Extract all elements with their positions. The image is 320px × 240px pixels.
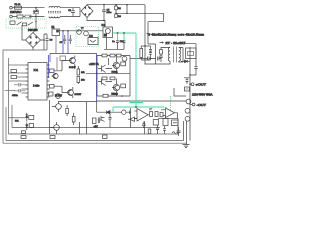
wire aux down bbox=[34, 17, 37, 33]
svg-text:1-wire: 1-wire bbox=[33, 85, 40, 88]
transistor T12 bbox=[98, 78, 106, 86]
transistor T11 bbox=[98, 65, 106, 73]
connector mark bbox=[185, 87, 190, 91]
snubber caps bbox=[149, 49, 152, 54]
input arrow bbox=[130, 117, 135, 122]
terminal L bbox=[10, 6, 13, 9]
wire bbox=[50, 100, 87, 134]
transformer Tr1 secondary bbox=[179, 48, 181, 62]
output rail bbox=[189, 47, 191, 141]
wire bbox=[174, 88, 186, 96]
resistor column bbox=[153, 120, 158, 126]
svg-text:BC547: BC547 bbox=[69, 67, 76, 69]
resistor R3 bbox=[115, 14, 118, 17]
bridge rectifier B1 bbox=[81, 5, 93, 18]
junction bbox=[35, 16, 37, 18]
cap bbox=[109, 115, 112, 128]
junction bbox=[67, 30, 69, 32]
switch S1 bbox=[17, 15, 23, 18]
diode cluster bottom left bbox=[9, 117, 26, 119]
cap at output bbox=[184, 78, 190, 84]
resistor R11 bbox=[11, 76, 17, 79]
resistor R1 bbox=[115, 5, 117, 6]
green stub to op-amp bbox=[165, 107, 167, 110]
trimmer bbox=[163, 119, 168, 126]
snubber resistor bbox=[140, 49, 143, 58]
IC U2 switcher bbox=[103, 27, 113, 38]
junction bbox=[115, 13, 117, 15]
resistor R41 bbox=[29, 124, 33, 128]
junction bbox=[126, 13, 128, 15]
bottom strip component bbox=[21, 136, 26, 139]
cap bbox=[177, 127, 181, 136]
green junction bbox=[135, 106, 137, 108]
bridge B1 diodes bbox=[84, 7, 90, 15]
wire drain rail bbox=[144, 5, 146, 64]
transistor T1 bbox=[70, 58, 76, 64]
svg-text:Tr 42x42x19.5mm; core 42x10.5m: Tr 42x42x19.5mm; core 42x10.5mm bbox=[147, 33, 205, 37]
svg-text:BC547: BC547 bbox=[75, 94, 82, 96]
terminal +OUT bbox=[191, 83, 194, 86]
op-amp U3a bbox=[137, 109, 148, 122]
svg-text:+OUT: +OUT bbox=[196, 83, 207, 87]
wire top dc rail bbox=[87, 4, 145, 6]
relay coil bbox=[23, 23, 27, 26]
green stub caps bbox=[118, 34, 125, 41]
wire bbox=[12, 105, 160, 128]
sense dashed wire bbox=[170, 96, 172, 116]
bottom mark bbox=[22, 131, 26, 134]
blue wire at IC bbox=[48, 55, 50, 78]
junction bbox=[77, 30, 79, 32]
resistor R17 bbox=[77, 77, 80, 83]
capacitor C9 bbox=[116, 41, 119, 50]
junction bbox=[189, 74, 191, 76]
wire bbox=[55, 36, 57, 54]
wire pin stubs bbox=[9, 65, 26, 93]
bottom middle cluster bbox=[93, 118, 97, 124]
svg-text:IC2: IC2 bbox=[89, 35, 93, 38]
optocoupler green box bbox=[76, 27, 99, 47]
wire bbox=[60, 8, 80, 17]
junction bbox=[126, 4, 128, 6]
cap column 1 bbox=[142, 122, 146, 129]
svg-text:4MHz: 4MHz bbox=[12, 95, 18, 97]
resistor R21 bbox=[110, 54, 115, 57]
varistor RV1 bbox=[33, 8, 38, 17]
junction bbox=[62, 30, 64, 32]
shunt box bbox=[172, 120, 179, 126]
meter M3 bbox=[185, 116, 190, 121]
svg-text:BC557: BC557 bbox=[55, 96, 63, 98]
output cap bbox=[190, 62, 198, 75]
capacitor C1 bbox=[71, 8, 75, 17]
fuse F1 bbox=[15, 6, 22, 9]
bottom bus wires bbox=[3, 107, 187, 143]
resistor R26 bbox=[102, 77, 107, 80]
wire mid bbox=[86, 73, 130, 75]
transistor T7 bbox=[77, 30, 82, 35]
terminal N bbox=[10, 15, 13, 18]
resistor R13 base bbox=[50, 85, 55, 89]
symbol squiggle bbox=[172, 132, 178, 135]
wire bbox=[56, 57, 58, 70]
wire y49 bbox=[104, 48, 124, 50]
junction bbox=[29, 16, 30, 17]
arrow bbox=[160, 42, 164, 43]
wire bbox=[12, 16, 44, 18]
capacitor C5 bulk bbox=[102, 5, 106, 21]
transistor T20 bbox=[56, 104, 62, 110]
resistor R24 bbox=[121, 62, 126, 66]
wire bridge minus bbox=[87, 18, 105, 28]
wire bbox=[145, 44, 197, 64]
bridge B2 diodes bbox=[29, 36, 37, 44]
junction bbox=[115, 4, 117, 6]
IC1 microcontroller bbox=[28, 63, 47, 101]
transformer core bbox=[174, 47, 177, 63]
transformer Tr1 primary bbox=[168, 48, 170, 62]
wire bbox=[32, 48, 34, 51]
coupling caps bbox=[144, 57, 161, 61]
wire left bus bbox=[8, 58, 10, 134]
wire bbox=[54, 86, 73, 98]
rectifier box bbox=[186, 48, 197, 59]
choke L1 bottom winding bbox=[49, 17, 60, 18]
resistor R16 bbox=[77, 69, 80, 75]
transistor T21 bbox=[54, 125, 60, 131]
terminal bbox=[122, 110, 126, 114]
relay contact bbox=[10, 21, 15, 24]
resistor R26 bbox=[72, 117, 75, 123]
junction bbox=[35, 7, 37, 9]
svg-text:+5V: +5V bbox=[94, 127, 99, 129]
label marks bbox=[149, 108, 152, 110]
capacitor C7 bbox=[63, 35, 66, 44]
resistor R22 bbox=[117, 54, 122, 57]
switch contact bbox=[17, 22, 22, 25]
resistor R14 bbox=[49, 92, 53, 96]
wire stub bbox=[5, 90, 16, 92]
capacitor C8 bbox=[69, 35, 72, 44]
svg-text:+24V 3A: +24V 3A bbox=[89, 63, 99, 66]
resistor on rail bbox=[103, 94, 108, 97]
junction bbox=[103, 4, 105, 6]
svg-text:230VAC: 230VAC bbox=[10, 10, 22, 14]
resistor R10 bbox=[11, 70, 17, 73]
wire bbox=[97, 101, 131, 128]
resistor R31 bbox=[155, 112, 158, 117]
svg-text:100u: 100u bbox=[107, 12, 113, 14]
resistor R25 bbox=[66, 109, 69, 114]
resistor small bbox=[160, 112, 163, 117]
wire y101 bbox=[97, 100, 187, 102]
crystal caps bbox=[14, 83, 26, 93]
terminal -OUT bbox=[192, 103, 195, 106]
svg-text:BD241: BD241 bbox=[112, 72, 119, 74]
wire mid rail bbox=[116, 13, 164, 44]
wire bbox=[130, 58, 144, 60]
choke L1 core bbox=[48, 11, 62, 13]
blue wire riser B bbox=[67, 31, 69, 54]
op-amp U3b bbox=[165, 108, 174, 118]
switch contact 2 bbox=[28, 22, 33, 25]
bridge rectifier B2 bbox=[26, 33, 41, 48]
thermistor R2 bbox=[25, 15, 31, 18]
bottom strip component bbox=[50, 136, 55, 139]
enclosure wire bbox=[3, 50, 47, 143]
resistor R20 bbox=[102, 54, 107, 57]
resistor R25 bbox=[121, 84, 126, 88]
transistor T10 bbox=[122, 56, 127, 61]
svg-text:F1 4A: F1 4A bbox=[15, 3, 21, 6]
capacitor C6 bbox=[45, 39, 48, 41]
wire push-pull rails bbox=[97, 56, 130, 97]
svg-text:B40C800: B40C800 bbox=[28, 30, 38, 32]
wire bbox=[22, 25, 26, 40]
transistor T5 bbox=[56, 94, 61, 99]
blue wire riser A bbox=[62, 31, 64, 54]
junction bbox=[35, 21, 36, 22]
junction bbox=[107, 95, 109, 97]
resistor R27 bbox=[110, 77, 115, 80]
ground bbox=[183, 143, 190, 147]
svg-text:BD242: BD242 bbox=[112, 94, 119, 96]
component box S2 bbox=[52, 29, 60, 36]
blue wire top bbox=[50, 54, 97, 102]
svg-text:-OUT: -OUT bbox=[197, 103, 207, 107]
wire bbox=[41, 34, 48, 50]
green wire main bbox=[113, 33, 165, 112]
wire bbox=[54, 56, 75, 71]
wire bbox=[184, 121, 187, 143]
junction dots on green bbox=[117, 32, 119, 34]
zener D13 bbox=[26, 125, 29, 128]
svg-text:12V-50V 50A: 12V-50V 50A bbox=[192, 92, 213, 96]
capacitor C10 bbox=[123, 41, 126, 50]
IC1 pins right bbox=[47, 65, 50, 97]
resistor R30 bbox=[150, 112, 153, 117]
resistor R12 base bbox=[50, 69, 55, 73]
cap column 3 bbox=[163, 126, 166, 134]
component box small bbox=[60, 56, 66, 61]
choke L1 top winding bbox=[49, 6, 60, 7]
resistor R40 bbox=[29, 115, 34, 119]
wire startup line bbox=[60, 30, 104, 32]
svg-text:IC3: IC3 bbox=[102, 24, 106, 27]
junction bbox=[43, 39, 45, 41]
wire bbox=[134, 113, 178, 134]
zener D12 bbox=[26, 115, 29, 118]
wire bbox=[106, 57, 117, 96]
wire bbox=[12, 7, 44, 9]
green dashed input box bbox=[6, 19, 46, 28]
IC1 pins left bbox=[26, 65, 29, 97]
cap column 2 bbox=[156, 125, 159, 134]
diode D5 bbox=[185, 60, 188, 63]
transistor T8 bbox=[84, 31, 89, 36]
LED D11 bbox=[101, 116, 105, 122]
junction bbox=[103, 20, 105, 22]
diode D10 bbox=[107, 111, 111, 115]
transistor T6 bbox=[53, 73, 58, 78]
resistor bottom bbox=[148, 129, 151, 134]
transistor T14 bbox=[113, 84, 119, 90]
wire bbox=[126, 5, 128, 14]
snubber network bbox=[144, 45, 146, 47]
optocoupler IC2 bbox=[88, 38, 98, 45]
transistor T13 bbox=[113, 62, 119, 68]
blue wire bottom bbox=[58, 101, 97, 103]
meter M2 bbox=[185, 108, 190, 113]
transistor T4 bbox=[68, 90, 74, 96]
RC at primary bbox=[159, 47, 162, 62]
meter M1 bbox=[186, 99, 191, 104]
svg-text:IC1: IC1 bbox=[34, 68, 39, 72]
